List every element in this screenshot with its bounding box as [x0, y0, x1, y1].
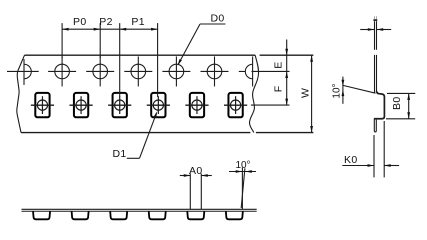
- svg-text:10°: 10°: [332, 83, 343, 98]
- svg-text:W: W: [300, 88, 312, 98]
- svg-text:K0: K0: [344, 154, 358, 166]
- svg-text:E: E: [272, 61, 284, 68]
- svg-text:10°: 10°: [235, 160, 250, 171]
- svg-text:F: F: [272, 85, 284, 92]
- svg-text:P2: P2: [99, 16, 113, 28]
- svg-text:D1: D1: [112, 148, 126, 160]
- svg-text:B0: B0: [391, 96, 403, 110]
- svg-text:P0: P0: [73, 16, 87, 28]
- svg-text:D0: D0: [210, 12, 224, 24]
- svg-text:A0: A0: [189, 165, 203, 177]
- svg-text:P1: P1: [131, 16, 145, 28]
